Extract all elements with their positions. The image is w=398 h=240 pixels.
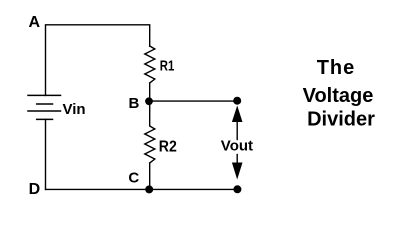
wire bottom D to C to right — [46, 188, 238, 190]
Vout arrowhead down — [232, 163, 243, 180]
svg-text:The: The — [317, 57, 356, 79]
Vout arrowhead up — [232, 106, 243, 123]
node C junction dot — [145, 185, 153, 193]
svg-text:Voltage: Voltage — [303, 85, 374, 107]
svg-text:Divider: Divider — [307, 109, 375, 131]
Vout arrow stem upper — [236, 121, 238, 140]
node dot Vout top — [233, 97, 241, 105]
svg-text:C: C — [128, 170, 139, 187]
wire R1 to node B — [149, 83, 151, 101]
svg-text:Vin: Vin — [63, 101, 86, 118]
battery Vin plate short bottom — [37, 118, 53, 120]
wire node B to right — [150, 100, 238, 102]
svg-text:B: B — [129, 95, 140, 112]
wire B to R2 — [149, 101, 151, 126]
svg-text:D: D — [29, 181, 41, 198]
wire battery bottom to D — [45, 119, 47, 189]
Vout arrow stem lower — [236, 155, 238, 164]
resistor R2 — [145, 126, 155, 163]
svg-text:R1: R1 — [160, 58, 175, 75]
resistor R1 — [145, 46, 155, 83]
wire R2 to node C — [149, 163, 151, 189]
battery Vin plate long — [28, 110, 61, 112]
battery Vin plate long top — [28, 94, 61, 96]
svg-text:Vout: Vout — [221, 138, 253, 155]
battery Vin plate short — [37, 103, 53, 105]
svg-text:A: A — [29, 14, 41, 31]
node dot Vout bottom — [233, 185, 241, 193]
wire top A to R1 — [46, 25, 150, 96]
node B junction dot — [145, 97, 153, 105]
svg-text:R2: R2 — [159, 139, 177, 156]
